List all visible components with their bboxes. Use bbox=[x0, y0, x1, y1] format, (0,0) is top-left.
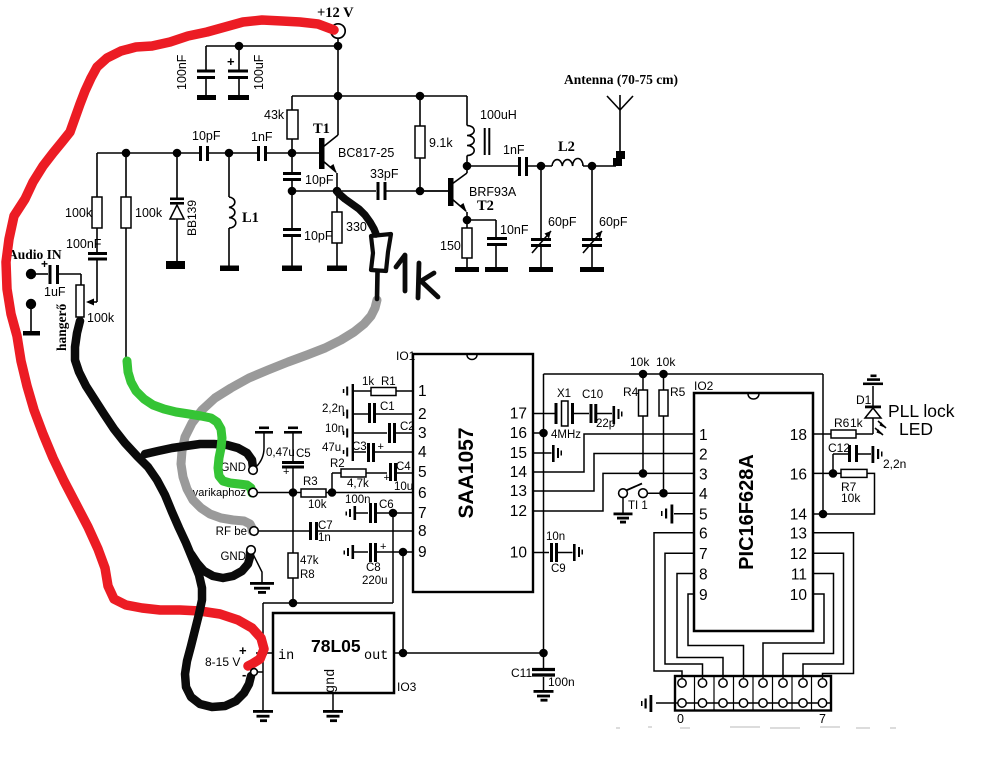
svg-text:220u: 220u bbox=[362, 575, 388, 587]
svg-text:16: 16 bbox=[510, 425, 527, 442]
svg-text:R3: R3 bbox=[303, 476, 318, 488]
svg-text:TI 1: TI 1 bbox=[628, 500, 648, 512]
svg-text:12: 12 bbox=[790, 546, 807, 563]
svg-text:GND: GND bbox=[220, 462, 246, 474]
svg-text:60pF: 60pF bbox=[599, 215, 628, 229]
svg-text:1: 1 bbox=[699, 427, 708, 444]
svg-text:GND: GND bbox=[220, 551, 246, 563]
svg-text:+: + bbox=[380, 541, 386, 553]
svg-text:+: + bbox=[384, 472, 390, 484]
svg-text:33pF: 33pF bbox=[370, 167, 399, 181]
svg-text:C2: C2 bbox=[400, 421, 415, 433]
svg-text:1: 1 bbox=[418, 383, 427, 400]
svg-text:C1: C1 bbox=[380, 401, 395, 413]
svg-text:10: 10 bbox=[510, 545, 528, 562]
svg-text:12: 12 bbox=[510, 503, 527, 520]
svg-text:1k: 1k bbox=[362, 376, 374, 388]
svg-text:C10: C10 bbox=[582, 389, 603, 401]
svg-text:100n: 100n bbox=[345, 494, 371, 506]
svg-text:8: 8 bbox=[418, 523, 427, 540]
svg-text:C6: C6 bbox=[379, 499, 394, 511]
svg-text:R4: R4 bbox=[623, 385, 639, 399]
svg-text:10: 10 bbox=[790, 587, 808, 604]
svg-text:18: 18 bbox=[790, 427, 807, 444]
svg-text:10k: 10k bbox=[308, 499, 327, 511]
svg-text:47k: 47k bbox=[300, 555, 319, 567]
svg-text:out: out bbox=[364, 649, 388, 664]
svg-text:LED: LED bbox=[899, 419, 933, 439]
svg-text:C11: C11 bbox=[511, 666, 532, 680]
svg-text:BB139: BB139 bbox=[185, 200, 199, 236]
svg-text:C5: C5 bbox=[296, 448, 311, 460]
svg-text:+: + bbox=[239, 643, 247, 658]
svg-text:10nF: 10nF bbox=[500, 223, 529, 237]
svg-text:100k: 100k bbox=[65, 206, 93, 220]
svg-text:2: 2 bbox=[418, 406, 427, 423]
svg-text:0: 0 bbox=[677, 712, 684, 726]
svg-text:5: 5 bbox=[699, 507, 708, 524]
svg-text:10pF: 10pF bbox=[304, 229, 333, 243]
svg-text:10u: 10u bbox=[394, 481, 413, 493]
svg-text:150: 150 bbox=[440, 239, 461, 253]
svg-text:X1: X1 bbox=[557, 388, 571, 400]
svg-text:16: 16 bbox=[790, 466, 807, 483]
svg-text:+12 V: +12 V bbox=[317, 5, 354, 21]
svg-text:9.1k: 9.1k bbox=[429, 136, 453, 150]
svg-text:4,7k: 4,7k bbox=[347, 478, 369, 490]
svg-text:C12: C12 bbox=[828, 441, 850, 455]
svg-text:47u: 47u bbox=[322, 442, 341, 454]
svg-text:10n: 10n bbox=[325, 423, 344, 435]
svg-text:330: 330 bbox=[346, 220, 367, 234]
svg-text:43k: 43k bbox=[264, 108, 285, 122]
svg-text:13: 13 bbox=[510, 483, 527, 500]
svg-text:1nF: 1nF bbox=[251, 130, 273, 144]
svg-text:IO1: IO1 bbox=[396, 349, 416, 363]
svg-text:10k: 10k bbox=[841, 491, 861, 505]
svg-text:1uF: 1uF bbox=[44, 285, 66, 299]
svg-text:14: 14 bbox=[790, 507, 808, 524]
svg-text:C9: C9 bbox=[551, 563, 566, 575]
svg-text:BRF93A: BRF93A bbox=[469, 185, 517, 199]
svg-text:2: 2 bbox=[699, 447, 708, 464]
svg-text:3: 3 bbox=[418, 425, 427, 442]
svg-text:BC817-25: BC817-25 bbox=[338, 146, 394, 160]
svg-text:R5: R5 bbox=[670, 385, 686, 399]
svg-text:60pF: 60pF bbox=[548, 215, 577, 229]
svg-text:7: 7 bbox=[418, 505, 427, 522]
svg-text:Antenna (70-75 cm): Antenna (70-75 cm) bbox=[564, 72, 678, 87]
svg-text:1n: 1n bbox=[318, 532, 331, 544]
svg-text:varikaphoz: varikaphoz bbox=[193, 487, 246, 499]
svg-text:15: 15 bbox=[510, 445, 527, 462]
svg-text:10pF: 10pF bbox=[192, 129, 221, 143]
svg-text:6: 6 bbox=[418, 485, 427, 502]
svg-text:hangerő: hangerő bbox=[54, 304, 69, 352]
svg-text:100uF: 100uF bbox=[252, 54, 266, 90]
svg-text:9: 9 bbox=[699, 587, 708, 604]
svg-text:0,47u: 0,47u bbox=[266, 447, 295, 459]
svg-text:100k: 100k bbox=[87, 311, 115, 325]
svg-text:R6: R6 bbox=[834, 416, 850, 430]
svg-text:SAA1057: SAA1057 bbox=[455, 427, 478, 518]
svg-text:gnd: gnd bbox=[324, 669, 339, 693]
svg-text:100nF: 100nF bbox=[66, 237, 102, 251]
svg-text:11: 11 bbox=[791, 567, 807, 584]
svg-text:L2: L2 bbox=[558, 139, 575, 155]
svg-text:in: in bbox=[278, 649, 294, 664]
svg-text:1k: 1k bbox=[850, 416, 864, 430]
svg-text:100k: 100k bbox=[135, 206, 163, 220]
svg-text:+: + bbox=[41, 257, 48, 271]
svg-text:100nF: 100nF bbox=[175, 54, 189, 90]
svg-text:+: + bbox=[227, 54, 235, 69]
svg-text:C3: C3 bbox=[352, 441, 367, 453]
svg-text:17: 17 bbox=[510, 406, 527, 423]
svg-text:10pF: 10pF bbox=[305, 173, 334, 187]
svg-text:13: 13 bbox=[790, 526, 807, 543]
svg-text:6: 6 bbox=[699, 526, 708, 543]
svg-text:RF be: RF be bbox=[216, 526, 247, 538]
svg-text:2,2n: 2,2n bbox=[322, 403, 344, 415]
svg-text:R1: R1 bbox=[381, 376, 396, 388]
svg-text:2,2n: 2,2n bbox=[883, 457, 906, 471]
svg-text:100uH: 100uH bbox=[480, 108, 517, 122]
svg-text:4MHz: 4MHz bbox=[551, 429, 581, 441]
svg-text:R8: R8 bbox=[300, 569, 315, 581]
svg-text:1nF: 1nF bbox=[503, 143, 525, 157]
svg-text:T2: T2 bbox=[477, 198, 494, 214]
svg-text:3: 3 bbox=[699, 466, 708, 483]
svg-text:7: 7 bbox=[819, 712, 826, 726]
svg-text:C4: C4 bbox=[396, 461, 411, 473]
svg-text:8-15 V: 8-15 V bbox=[205, 655, 240, 669]
svg-text:4: 4 bbox=[418, 444, 427, 461]
svg-text:T1: T1 bbox=[313, 121, 330, 137]
svg-text:10n: 10n bbox=[546, 531, 565, 543]
svg-text:100n: 100n bbox=[548, 675, 575, 689]
svg-text:+: + bbox=[378, 441, 384, 453]
svg-text:L1: L1 bbox=[242, 210, 259, 226]
svg-text:IO2: IO2 bbox=[694, 379, 714, 393]
svg-text:8: 8 bbox=[699, 567, 708, 584]
svg-text:D1: D1 bbox=[856, 393, 872, 407]
svg-text:4: 4 bbox=[699, 486, 708, 503]
svg-text:78L05: 78L05 bbox=[311, 636, 361, 656]
svg-text:+: + bbox=[283, 466, 289, 478]
svg-text:5: 5 bbox=[418, 464, 427, 481]
svg-text:PIC16F628A: PIC16F628A bbox=[736, 454, 758, 570]
svg-text:IO3: IO3 bbox=[397, 680, 417, 694]
svg-text:14: 14 bbox=[510, 464, 528, 481]
svg-text:7: 7 bbox=[699, 546, 708, 563]
svg-text:C7: C7 bbox=[318, 520, 333, 532]
svg-text:22p: 22p bbox=[596, 418, 615, 430]
svg-text:10k: 10k bbox=[630, 355, 650, 369]
svg-text:R2: R2 bbox=[330, 458, 345, 470]
svg-text:10k: 10k bbox=[656, 355, 676, 369]
svg-text:9: 9 bbox=[418, 544, 427, 561]
svg-text:Audio IN: Audio IN bbox=[8, 247, 62, 262]
svg-text:PLL lock: PLL lock bbox=[888, 401, 955, 421]
svg-text:C8: C8 bbox=[366, 562, 381, 574]
